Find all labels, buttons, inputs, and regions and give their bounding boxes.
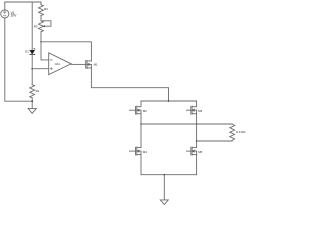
op-amp OA1 xyxy=(49,53,71,75)
wire bridge mid rail to shunt xyxy=(141,123,232,125)
svg-text:OA1: OA1 xyxy=(55,62,61,66)
wire R1 bottom to ground xyxy=(31,98,33,109)
transistor M4 xyxy=(129,147,147,155)
svg-text:10V: 10V xyxy=(10,14,17,18)
wire R3 bottom to junction xyxy=(40,32,42,42)
wire M5 source to bottom rail xyxy=(196,155,198,175)
transistor M2 xyxy=(129,106,147,114)
resistor R shunt xyxy=(230,124,246,140)
wire top rail stub to R2 xyxy=(40,2,42,5)
wire shunt bottom back to right branch xyxy=(197,139,233,142)
svg-text:M4: M4 xyxy=(143,150,147,154)
svg-text:R3: R3 xyxy=(34,24,38,28)
voltage source V1 xyxy=(1,10,17,18)
svg-text:D1: D1 xyxy=(25,49,29,53)
node bottom rail center xyxy=(164,174,166,176)
svg-text:M3: M3 xyxy=(198,109,202,113)
svg-text:M5: M5 xyxy=(198,150,202,154)
wire junction right to M1 drain xyxy=(41,42,91,61)
node ground junction left xyxy=(31,100,33,102)
diode D1 xyxy=(25,48,35,54)
wire bridge top rail xyxy=(141,100,197,102)
svg-text:M2: M2 xyxy=(143,109,147,113)
svg-text:R1: R1 xyxy=(36,89,40,93)
svg-text:R2: R2 xyxy=(44,7,48,11)
wire op-amp output to M1 gate xyxy=(71,63,86,65)
wire junction down to op-amp inverting input xyxy=(41,42,49,60)
wire M3 drain riser xyxy=(192,101,197,107)
node shunt bottom tap xyxy=(196,140,198,142)
transistor M3 xyxy=(186,106,202,114)
node mid rail right xyxy=(196,123,198,125)
wire top: V1 plus up and across to R2 branch xyxy=(5,2,41,10)
node mid rail left xyxy=(140,123,142,125)
wire M1 source down and across to bridge top xyxy=(91,68,168,101)
wire bridge bottom rail xyxy=(141,174,197,176)
wire D1 cathode down to R1 xyxy=(31,54,33,84)
wire M2 drain riser xyxy=(137,101,141,107)
transistor M1 xyxy=(86,60,98,68)
wire ground stem xyxy=(163,175,165,200)
svg-text:R 0.004: R 0.004 xyxy=(236,130,246,134)
potentiometer R3 xyxy=(34,21,51,32)
wire to op-amp non-inverting input xyxy=(32,68,49,70)
wire M5 drain riser xyxy=(192,147,197,149)
node R3 bottom junction xyxy=(40,41,42,43)
wire M4 drain riser xyxy=(137,147,141,149)
wire bridge right branch M3 source to M5 drain xyxy=(196,114,198,148)
wire M4 source to bottom rail xyxy=(140,155,142,175)
node at op-amp plus input tap xyxy=(31,68,33,70)
resistor R1 xyxy=(30,85,40,98)
svg-text:M1: M1 xyxy=(94,63,98,67)
ground (left) xyxy=(28,108,36,113)
node bridge top feed xyxy=(168,100,170,102)
wire R2 to R3 xyxy=(40,16,42,21)
wire diode branch from top rail down to D1 xyxy=(31,2,33,50)
resistor R2 xyxy=(39,5,49,16)
transistor M5 xyxy=(186,147,202,155)
wire left: V1 minus down and right to ground node xyxy=(5,18,32,101)
ground (bridge) xyxy=(160,200,168,205)
wire bridge left branch M2 source to M4 drain xyxy=(140,114,142,148)
